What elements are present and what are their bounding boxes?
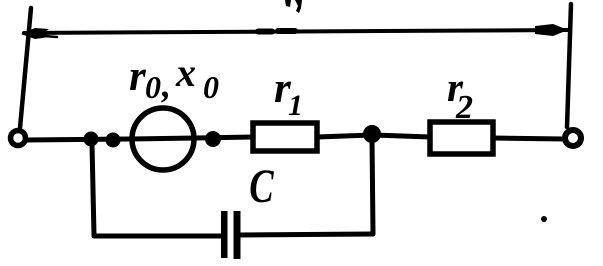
capacitor C plates	[221, 211, 241, 259]
terminal left	[11, 131, 26, 146]
arrowhead right	[535, 24, 568, 36]
wire branch right vertical	[372, 138, 373, 234]
label r2	[447, 64, 473, 126]
speck dot	[541, 216, 547, 222]
resistor R1	[253, 123, 317, 151]
svg-text:x: x	[175, 50, 196, 95]
wire node B to r2	[372, 135, 430, 137]
wire branch left vertical	[92, 144, 94, 235]
wire main horizontal	[26, 137, 253, 140]
svg-text:0: 0	[203, 69, 219, 105]
arrowhead left	[21, 28, 49, 39]
source r0,x0	[132, 108, 194, 170]
wire r2 to right terminal	[493, 138, 564, 139]
label r1	[274, 65, 303, 122]
wire r1 to node B	[317, 135, 372, 137]
dimension extension line left	[20, 8, 31, 128]
svg-text:C: C	[249, 160, 274, 213]
wire branch bottom right	[241, 234, 373, 235]
wire branch bottom left	[94, 234, 221, 239]
svg-text:,: ,	[161, 65, 171, 105]
dimension line	[24, 30, 568, 33]
svg-text:0: 0	[145, 69, 161, 105]
resistor R2	[430, 122, 493, 154]
label r0,x0	[129, 50, 219, 105]
node A junction dot	[84, 132, 99, 147]
dimension extension line right	[567, 4, 571, 127]
label U (cropped at top edge)	[285, 0, 302, 13]
svg-text:1: 1	[288, 89, 303, 122]
junction dot 3	[205, 131, 221, 147]
junction dot 2	[106, 133, 121, 148]
node B junction dot	[363, 125, 381, 143]
svg-text:2: 2	[455, 89, 473, 126]
terminal right	[565, 130, 581, 146]
